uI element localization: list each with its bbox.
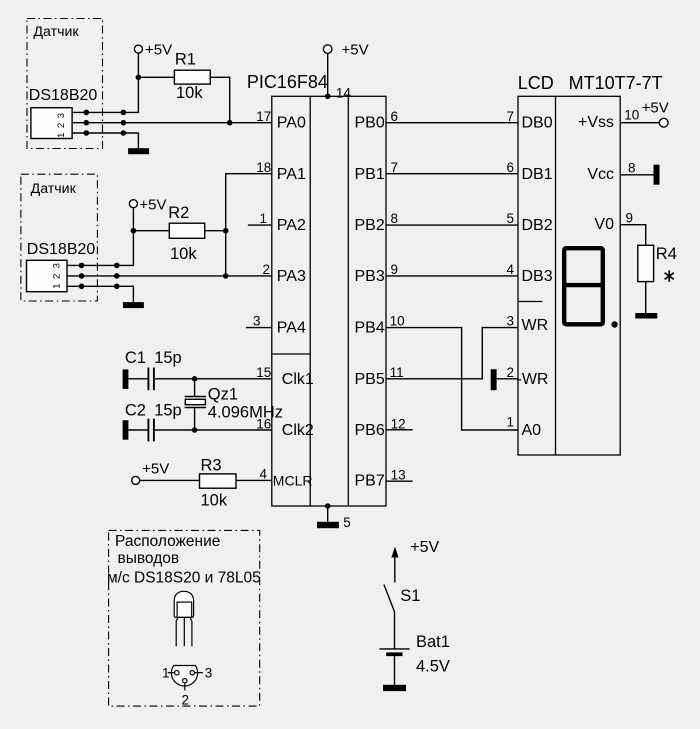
- svg-text:DB0: DB0: [522, 115, 553, 132]
- resistor R3 10k: [140, 457, 272, 510]
- svg-text:10k: 10k: [176, 84, 203, 102]
- svg-text:17: 17: [256, 109, 271, 124]
- wire PB0 to DB0: [386, 122, 518, 124]
- svg-text:9: 9: [626, 211, 634, 226]
- LCD module MT10T7-7T body: [517, 73, 663, 455]
- ground PIC pin5: [317, 503, 351, 530]
- svg-text:15: 15: [256, 365, 271, 380]
- +5V terminal sensor2: [129, 197, 166, 234]
- wire PB3 to DB3: [386, 275, 518, 277]
- resistor R4: [620, 211, 677, 314]
- svg-text:выводов: выводов: [118, 550, 180, 567]
- svg-text:DB3: DB3: [522, 268, 553, 285]
- +5V arrow terminal S1: [391, 539, 439, 583]
- svg-text:PB4: PB4: [355, 320, 385, 337]
- svg-text:PA4: PA4: [277, 320, 306, 337]
- svg-text:6: 6: [391, 109, 399, 124]
- svg-text:15p: 15p: [154, 402, 182, 420]
- resistor R1 10k: [138, 51, 229, 123]
- svg-text:10: 10: [624, 108, 639, 123]
- pin number labels PIC right: [390, 109, 406, 483]
- capacitor C2 15p: [123, 402, 182, 442]
- svg-text:LCD: LCD: [518, 73, 554, 93]
- +5V terminal PIC pin14: [323, 42, 368, 101]
- svg-text:PIC16F84: PIC16F84: [247, 72, 328, 92]
- svg-text:1: 1: [56, 133, 67, 138]
- ground R4: [635, 313, 657, 319]
- sensor 2 boundary box: [21, 174, 98, 301]
- sensor U1 DS18B20: [29, 87, 98, 139]
- svg-text:R1: R1: [175, 51, 196, 69]
- svg-text:15p: 15p: [154, 349, 182, 367]
- sensor U2 DS18B20: [27, 241, 96, 292]
- sensor 1 boundary box: [27, 19, 103, 149]
- svg-text:5: 5: [506, 211, 514, 226]
- wire stub PB7: [386, 480, 413, 482]
- wire sensor2 pin1 to ground: [67, 284, 133, 303]
- svg-text:PA2: PA2: [277, 217, 306, 234]
- svg-text:11: 11: [390, 365, 404, 380]
- svg-text:7: 7: [391, 160, 399, 175]
- svg-text:DB2: DB2: [522, 217, 553, 234]
- seven segment digit display: [564, 248, 618, 327]
- svg-text:4: 4: [506, 262, 514, 277]
- svg-text:3: 3: [253, 314, 261, 329]
- svg-text:Qz1: Qz1: [208, 386, 238, 404]
- svg-text:8: 8: [391, 211, 399, 226]
- svg-text:1: 1: [52, 283, 63, 288]
- svg-text:+5V: +5V: [145, 42, 172, 59]
- svg-text:-WR: -WR: [517, 371, 549, 388]
- svg-text:10k: 10k: [170, 245, 197, 263]
- wire sensor1 pin1 to ground: [72, 130, 138, 148]
- svg-text:6: 6: [506, 160, 514, 175]
- wire C1 to Clk1: [155, 376, 272, 382]
- svg-text:PA0: PA0: [277, 115, 306, 132]
- svg-text:A0: A0: [522, 422, 542, 439]
- wire C2 to Clk2: [155, 427, 272, 433]
- svg-text:WR: WR: [522, 317, 549, 334]
- svg-text:PB7: PB7: [355, 473, 385, 490]
- svg-text:13: 13: [391, 468, 406, 483]
- wire stub PA2 pin1: [248, 224, 272, 226]
- svg-text:+5V: +5V: [139, 197, 166, 214]
- wire stub PB6: [386, 429, 413, 431]
- svg-text:DS18B20: DS18B20: [27, 241, 96, 258]
- svg-text:14: 14: [336, 86, 352, 101]
- svg-text:7: 7: [506, 109, 514, 124]
- IC U3 PIC16F84 microcontroller: [247, 72, 386, 506]
- svg-text:+Vss: +Vss: [578, 114, 614, 131]
- pin number labels PIC left: [253, 109, 271, 482]
- svg-text:DB1: DB1: [522, 166, 553, 183]
- svg-text:Clk1: Clk1: [282, 371, 314, 388]
- svg-text:DS18B20: DS18B20: [29, 87, 98, 104]
- ground LCD pin2 WR: [491, 369, 518, 390]
- svg-text:MT10T7-7T: MT10T7-7T: [569, 73, 663, 93]
- svg-text:9: 9: [391, 262, 399, 277]
- svg-text:3: 3: [56, 113, 67, 118]
- wire PB5 to WR: [386, 328, 518, 379]
- svg-text:4.5V: 4.5V: [416, 658, 450, 676]
- battery Bat1 4.5V: [379, 633, 450, 685]
- svg-text:Расположение: Расположение: [115, 533, 220, 550]
- svg-text:18: 18: [256, 160, 271, 175]
- svg-text:1: 1: [162, 666, 170, 681]
- ground battery: [383, 685, 406, 691]
- svg-text:R3: R3: [201, 457, 222, 475]
- svg-text:PB5: PB5: [355, 371, 385, 388]
- svg-text:12: 12: [391, 416, 406, 431]
- +5V terminal LCD pin10: [620, 100, 669, 128]
- svg-text:PA3: PA3: [277, 268, 306, 285]
- svg-text:R4: R4: [656, 245, 677, 263]
- wire stub PA4 pin3: [246, 327, 272, 329]
- wire PB2 to DB2: [386, 224, 518, 226]
- svg-text:Clk2: Clk2: [282, 422, 314, 439]
- svg-text:PB2: PB2: [355, 217, 385, 234]
- wire PB4 to A0: [386, 328, 518, 430]
- svg-text:R2: R2: [168, 204, 189, 222]
- svg-text:PB3: PB3: [355, 268, 385, 285]
- svg-text:C1: C1: [125, 349, 146, 367]
- svg-text:10: 10: [390, 314, 405, 329]
- wire sensor2 pin3 to +5V: [67, 231, 133, 269]
- svg-text:PB0: PB0: [355, 115, 385, 132]
- svg-text:C2: C2: [125, 402, 146, 420]
- wire sensor1 pin3 to +5V: [72, 77, 138, 115]
- capacitor C1 15p: [123, 349, 182, 390]
- svg-text:3: 3: [52, 263, 63, 268]
- ground sensor1: [128, 148, 149, 154]
- pinout info box: [107, 530, 261, 706]
- crystal Qz1 4.096MHz: [185, 379, 283, 430]
- svg-text:3: 3: [506, 314, 514, 329]
- svg-text:16: 16: [256, 416, 271, 431]
- svg-text:10k: 10k: [201, 492, 228, 510]
- svg-text:Датчик: Датчик: [33, 24, 79, 40]
- svg-text:Bat1: Bat1: [416, 633, 450, 651]
- svg-text:2: 2: [506, 365, 514, 380]
- +5V terminal MCLR: [132, 461, 170, 485]
- svg-text:PB1: PB1: [355, 166, 385, 183]
- resistor R2 10k: [133, 204, 225, 263]
- ground sensor2: [123, 302, 144, 308]
- svg-text:+5V: +5V: [642, 100, 669, 117]
- svg-text:PA1: PA1: [277, 166, 306, 183]
- svg-text:4: 4: [259, 467, 267, 482]
- svg-text:1: 1: [259, 211, 267, 226]
- svg-text:2: 2: [262, 262, 270, 277]
- wire sensor1 pin2 data to PA0: [72, 120, 272, 126]
- svg-text:3: 3: [205, 666, 213, 681]
- svg-text:2: 2: [56, 123, 67, 128]
- pin number labels LCD left: [506, 109, 514, 430]
- svg-text:Vcc: Vcc: [587, 166, 614, 183]
- +5V terminal sensor1: [134, 42, 172, 81]
- svg-text:2: 2: [52, 274, 63, 279]
- svg-text:MCLR: MCLR: [273, 473, 313, 489]
- wire sensor2 pin2 data to PA3: [67, 273, 272, 279]
- transistor package TO-92 bottom view: [162, 666, 212, 708]
- svg-text:+5V: +5V: [410, 539, 439, 556]
- wire PA1 to data bus sensor2: [223, 174, 272, 276]
- svg-text:м/с DS18S20 и 78L05: м/с DS18S20 и 78L05: [107, 570, 261, 587]
- svg-text:PB6: PB6: [355, 422, 385, 439]
- transistor package TO-92 side view: [174, 591, 193, 646]
- svg-text:1: 1: [506, 415, 514, 430]
- ground LCD pin8 Vcc: [620, 161, 659, 185]
- svg-text:S1: S1: [400, 587, 420, 605]
- svg-text:2: 2: [182, 693, 190, 708]
- svg-text:Датчик: Датчик: [31, 181, 77, 197]
- svg-text:V0: V0: [594, 216, 614, 233]
- svg-text:5: 5: [343, 515, 351, 530]
- svg-text:8: 8: [628, 161, 636, 176]
- wire PB1 to DB1: [386, 173, 518, 175]
- switch S1: [384, 585, 420, 649]
- svg-text:+5V: +5V: [142, 461, 169, 478]
- svg-text:+5V: +5V: [342, 42, 369, 59]
